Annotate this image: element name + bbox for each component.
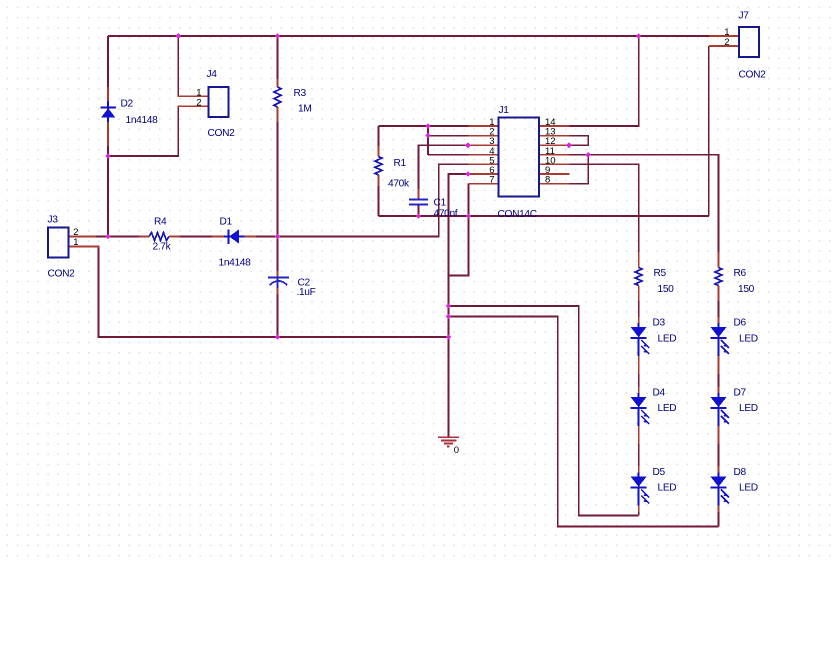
svg-text:LED: LED: [658, 483, 677, 494]
wire J7 pin2 ground drop: [708, 46, 710, 216]
node ground drop / chain A return: [446, 303, 452, 309]
pin D7 lower leads: [718, 426, 720, 444]
node pin11 wire / pin8 riser: [585, 152, 591, 158]
wire J1 pin7 descent to ground symbol: [449, 184, 469, 438]
wire R1 column: [378, 126, 380, 157]
resistor R3 1M: [274, 87, 311, 115]
pin J7-2: [709, 45, 739, 47]
pin R1 leads: [378, 146, 380, 157]
connector J4: [196, 69, 235, 139]
svg-text:150: 150: [738, 284, 755, 295]
svg-text:1M: 1M: [298, 104, 311, 115]
pin J7-1: [709, 35, 739, 37]
svg-text:CON2: CON2: [208, 128, 236, 139]
node top rail / pin14 riser: [636, 33, 642, 39]
pin R3 leads: [277, 79, 279, 87]
node pin1 wire / riser: [425, 123, 431, 129]
pin R5 leads: [638, 252, 640, 268]
node pin12 end: [566, 142, 572, 148]
svg-text:D2: D2: [121, 99, 134, 110]
connector J1 CON14C: [489, 105, 555, 220]
svg-text:R6: R6: [734, 268, 747, 279]
pin D3 lower leads: [638, 356, 640, 374]
wire J1 pin14 to supply: [570, 36, 639, 126]
node pin2 wire / riser: [425, 133, 431, 139]
pin D8 lower lead: [718, 506, 720, 513]
wire LED chain B return: [449, 317, 719, 527]
wire R3 column: [277, 36, 279, 87]
svg-text:0: 0: [454, 445, 459, 456]
wire LED chain A return: [449, 306, 639, 516]
pin D5 lower lead: [638, 506, 640, 513]
svg-text:LED: LED: [739, 334, 758, 345]
svg-text:J1: J1: [499, 105, 510, 116]
resistor R1 470k: [375, 157, 410, 190]
node top rail / R3: [275, 33, 281, 39]
pin J4-2: [177, 105, 208, 107]
LED D8: [711, 467, 758, 505]
node ground drop / chain B return: [446, 314, 452, 320]
wire J3 pin1 to ground rail bottom: [69, 247, 449, 338]
node pin6 end: [465, 171, 471, 177]
node pin7 drop / ground rail: [466, 213, 472, 219]
pin J3-2: [69, 236, 97, 238]
resistor R6 150: [715, 268, 755, 296]
node main net / J3: [105, 234, 111, 240]
pin C2 leads: [277, 271, 279, 277]
svg-text:1n4148: 1n4148: [126, 115, 159, 126]
wire R6-D6-D7-D8 column: [718, 286, 720, 527]
svg-text:C1: C1: [434, 198, 447, 209]
wire D2 branch vertical: [107, 36, 109, 237]
wire C2 column: [277, 237, 279, 272]
svg-text:D4: D4: [653, 388, 666, 399]
svg-text:J3: J3: [48, 215, 59, 226]
node main net / R3-C2: [275, 234, 281, 240]
resistor R5 150: [635, 268, 674, 296]
pin D6 lower leads: [718, 356, 720, 374]
svg-text:D6: D6: [734, 318, 747, 329]
wire J4 pin1 riser: [177, 36, 179, 96]
node D2 column / J4 pin2: [105, 153, 111, 159]
svg-text:8: 8: [545, 175, 550, 186]
LED D7: [711, 388, 758, 427]
pin D1 leads: [212, 236, 224, 238]
wire top supply rail: [108, 35, 709, 37]
svg-text:CON14C: CON14C: [498, 209, 537, 220]
wire J4 pin2 to node at (108,156): [108, 106, 178, 156]
svg-text:150: 150: [658, 284, 675, 295]
svg-text:1n4148: 1n4148: [219, 258, 252, 269]
pin R4 leads: [139, 236, 149, 238]
pin J1 left 1-7: [469, 125, 499, 127]
wire J1 pin6 descent: [449, 174, 469, 276]
LED D6: [711, 318, 758, 357]
pin D4 lower leads: [638, 426, 640, 444]
svg-text:D3: D3: [653, 318, 666, 329]
svg-text:D8: D8: [734, 467, 747, 478]
svg-text:1: 1: [73, 237, 78, 248]
LED D3: [631, 318, 677, 357]
svg-text:J7: J7: [739, 11, 750, 22]
svg-text:CON2: CON2: [739, 70, 767, 81]
svg-text:CON2: CON2: [48, 269, 76, 280]
svg-text:470nf: 470nf: [434, 209, 458, 220]
wire J1 pin11 to R6 column: [570, 155, 719, 252]
pin D2 anode/cathode leads: [107, 87, 109, 101]
connector J7: [724, 11, 766, 81]
LED D5: [631, 467, 677, 505]
node top rail / J4 riser: [175, 33, 181, 39]
connector J3: [48, 215, 79, 280]
svg-text:7: 7: [489, 175, 494, 186]
ground symbol node 0: [438, 437, 459, 456]
wire J1 pin8 riser: [570, 155, 589, 184]
svg-text:2: 2: [724, 37, 729, 48]
svg-text:LED: LED: [739, 483, 758, 494]
pin J3-1: [69, 246, 100, 248]
node C1 bottom / ground rail: [416, 213, 422, 219]
wire J1 pin13-pin12 loop: [569, 136, 588, 146]
svg-text:LED: LED: [658, 334, 677, 345]
wire J1 pins 1-2-4 net: [379, 125, 469, 127]
PINS (red component pin segments): [69, 36, 740, 512]
node ground drop / bottom wire: [446, 334, 452, 340]
svg-text:R5: R5: [654, 268, 667, 279]
wire C1 bottom lead: [418, 205, 420, 216]
capacitor C1 470nf: [409, 198, 458, 220]
svg-text:D7: D7: [734, 388, 747, 399]
pin R6 leads: [718, 252, 720, 268]
diode D1 1n4148: [219, 217, 252, 269]
svg-text:D5: D5: [653, 467, 666, 478]
pin J1 right 14-8: [539, 125, 570, 127]
svg-text:2.7k: 2.7k: [153, 242, 172, 253]
svg-text:LED: LED: [739, 403, 758, 414]
svg-text:LED: LED: [658, 403, 677, 414]
svg-text:.1uF: .1uF: [297, 287, 316, 298]
wire R5-D3-D4-D5 column: [638, 286, 640, 516]
svg-text:2: 2: [196, 97, 201, 108]
node pin3 end: [465, 142, 471, 148]
diode D2 1n4148: [101, 99, 159, 127]
capacitor C2 .1uF: [268, 277, 316, 298]
wire J1 pin10 to R5 column: [570, 164, 639, 252]
svg-text:R4: R4: [154, 217, 167, 228]
svg-text:J4: J4: [207, 69, 218, 80]
svg-text:R3: R3: [294, 88, 307, 99]
resistor R4 2.7k: [149, 217, 172, 253]
wire ground horizontal rail under CON14C: [379, 215, 709, 217]
svg-text:D1: D1: [220, 217, 233, 228]
wire C1 top lead to J1 pin3: [419, 145, 469, 199]
wire main horizontal net J3 to J1 pin5: [69, 236, 150, 238]
LED D4: [631, 388, 677, 427]
node C2 bottom / bottom wire: [275, 334, 281, 340]
svg-text:R1: R1: [394, 158, 407, 169]
pin C1 leads: [418, 189, 420, 199]
svg-text:470k: 470k: [388, 179, 410, 190]
pin J4-1: [177, 95, 208, 97]
